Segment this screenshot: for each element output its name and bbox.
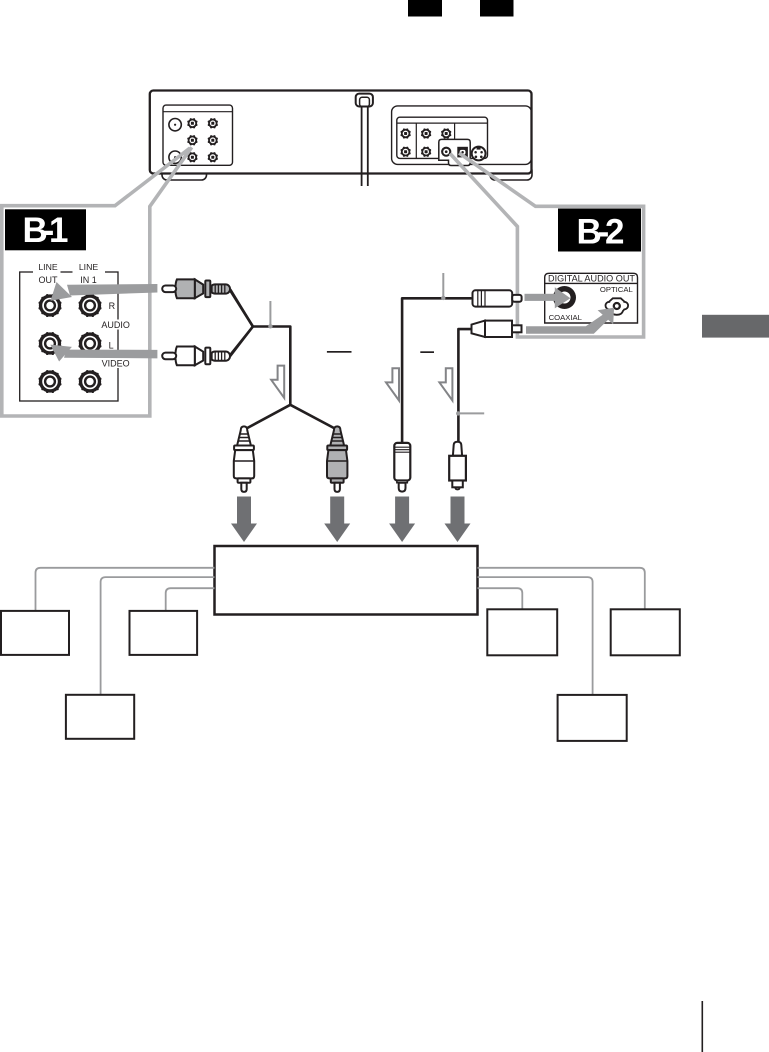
svg-text:LINE: LINE (38, 262, 58, 272)
svg-text:COAXIAL: COAXIAL (549, 313, 583, 322)
svg-text:VIDEO: VIDEO (102, 359, 130, 369)
svg-text:LINE: LINE (79, 262, 99, 272)
svg-text:DIGITAL AUDIO OUT: DIGITAL AUDIO OUT (548, 274, 635, 285)
svg-text:IN 1: IN 1 (80, 275, 97, 285)
svg-text:OPTICAL: OPTICAL (600, 285, 634, 294)
svg-text:OUT: OUT (39, 275, 59, 285)
svg-text:B-1: B-1 (23, 211, 69, 250)
svg-text:L: L (109, 341, 114, 351)
svg-text:B-2: B-2 (577, 213, 625, 252)
svg-text:R: R (109, 301, 116, 311)
svg-text:AUDIO: AUDIO (101, 320, 130, 330)
